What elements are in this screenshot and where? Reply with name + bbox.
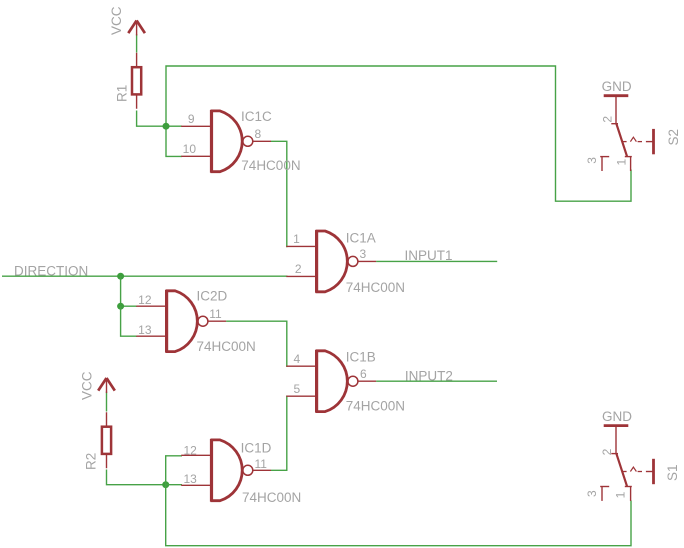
wire: junction C down to IC2D pin 13 bbox=[121, 306, 137, 336]
svg-text:13: 13 bbox=[138, 323, 152, 337]
svg-text:11: 11 bbox=[209, 307, 222, 321]
wire: junction A to IC1C pin 9 bbox=[166, 125, 182, 127]
wire: junction D down along bottom to switch S1 pin 1 bbox=[166, 485, 631, 546]
wire: junction A down to IC1C pin 10 bbox=[166, 126, 182, 156]
svg-text:DIRECTION: DIRECTION bbox=[14, 263, 88, 278]
svg-text:74HC00N: 74HC00N bbox=[241, 158, 300, 173]
switch S2 bbox=[600, 96, 653, 171]
wire: VCC1 to R1 bbox=[136, 34, 138, 53]
junction A bbox=[163, 123, 170, 130]
svg-text:R1: R1 bbox=[114, 85, 129, 102]
svg-text:INPUT2: INPUT2 bbox=[405, 369, 453, 384]
wire: R1 to junction A bbox=[137, 111, 166, 127]
svg-text:GND: GND bbox=[602, 79, 632, 94]
svg-text:2: 2 bbox=[600, 448, 614, 455]
svg-text:GND: GND bbox=[602, 409, 632, 424]
svg-text:1: 1 bbox=[614, 491, 628, 498]
nand gate IC1C bbox=[181, 110, 271, 173]
wire: INPUT1 net from IC1A output bbox=[376, 260, 497, 262]
svg-text:3: 3 bbox=[585, 490, 599, 497]
wire: junction D up to IC1D pin 12 bbox=[166, 456, 182, 485]
svg-text:S1: S1 bbox=[665, 464, 680, 481]
junction C bbox=[117, 303, 124, 310]
ground GND at S2 bbox=[604, 95, 629, 97]
svg-text:2: 2 bbox=[601, 116, 615, 123]
supply VCC2 bbox=[98, 378, 115, 393]
wire: R2 down to junction D bbox=[107, 470, 166, 485]
svg-text:74HC00N: 74HC00N bbox=[197, 339, 256, 354]
svg-text:IC1D: IC1D bbox=[241, 441, 272, 456]
svg-text:IC1A: IC1A bbox=[346, 230, 376, 245]
svg-text:6: 6 bbox=[360, 367, 367, 381]
svg-text:2: 2 bbox=[295, 262, 302, 276]
svg-text:1: 1 bbox=[615, 159, 629, 166]
svg-text:12: 12 bbox=[138, 293, 152, 307]
svg-text:13: 13 bbox=[183, 472, 197, 486]
svg-text:4: 4 bbox=[294, 352, 301, 366]
svg-text:VCC: VCC bbox=[80, 371, 95, 400]
nand gate IC1A bbox=[286, 230, 376, 293]
junction D bbox=[162, 481, 169, 488]
svg-text:74HC00N: 74HC00N bbox=[346, 399, 405, 414]
resistor R1 bbox=[132, 53, 141, 109]
wire: junction D to IC1D pin 13 bbox=[166, 484, 182, 486]
nand gate IC1D bbox=[181, 439, 271, 502]
resistor R2 bbox=[102, 412, 111, 468]
wire: IC1C output to IC1A pin 1 bbox=[271, 141, 288, 246]
svg-text:IC1B: IC1B bbox=[346, 350, 376, 365]
nand gate IC2D bbox=[136, 290, 226, 353]
svg-text:IC1C: IC1C bbox=[241, 109, 272, 124]
svg-text:3: 3 bbox=[585, 157, 599, 164]
svg-text:10: 10 bbox=[183, 142, 197, 156]
svg-text:VCC: VCC bbox=[109, 6, 124, 35]
svg-text:12: 12 bbox=[183, 443, 197, 457]
nand gate IC1B bbox=[286, 350, 376, 413]
wire: DIRECTION net bbox=[2, 275, 288, 277]
svg-text:11: 11 bbox=[255, 457, 268, 471]
wire: net junction A up over to switch S2 pin1 bbox=[166, 66, 631, 201]
svg-text:74HC00N: 74HC00N bbox=[242, 490, 301, 505]
svg-text:IC2D: IC2D bbox=[197, 289, 228, 304]
junction B on DIRECTION bbox=[117, 273, 124, 280]
svg-text:INPUT1: INPUT1 bbox=[405, 248, 453, 263]
wire: VCC2 to R2 bbox=[106, 392, 108, 412]
switch S1 bbox=[600, 426, 653, 501]
wire: junction B down to IC2D pin 12 bbox=[121, 276, 137, 306]
wire: INPUT2 net from IC1B output bbox=[376, 380, 497, 382]
ground GND at S1 bbox=[604, 425, 629, 427]
svg-text:74HC00N: 74HC00N bbox=[346, 280, 405, 295]
wire: IC2D output to IC1B pin 4 bbox=[226, 321, 287, 366]
supply VCC1 bbox=[128, 21, 145, 36]
svg-text:8: 8 bbox=[255, 127, 262, 141]
svg-text:R2: R2 bbox=[83, 453, 98, 470]
svg-text:9: 9 bbox=[188, 112, 195, 126]
wire: IC1D output up to IC1B pin 5 bbox=[271, 396, 288, 470]
svg-text:S2: S2 bbox=[666, 129, 681, 146]
svg-text:1: 1 bbox=[293, 232, 300, 246]
svg-text:5: 5 bbox=[294, 382, 301, 396]
svg-text:3: 3 bbox=[360, 247, 367, 261]
